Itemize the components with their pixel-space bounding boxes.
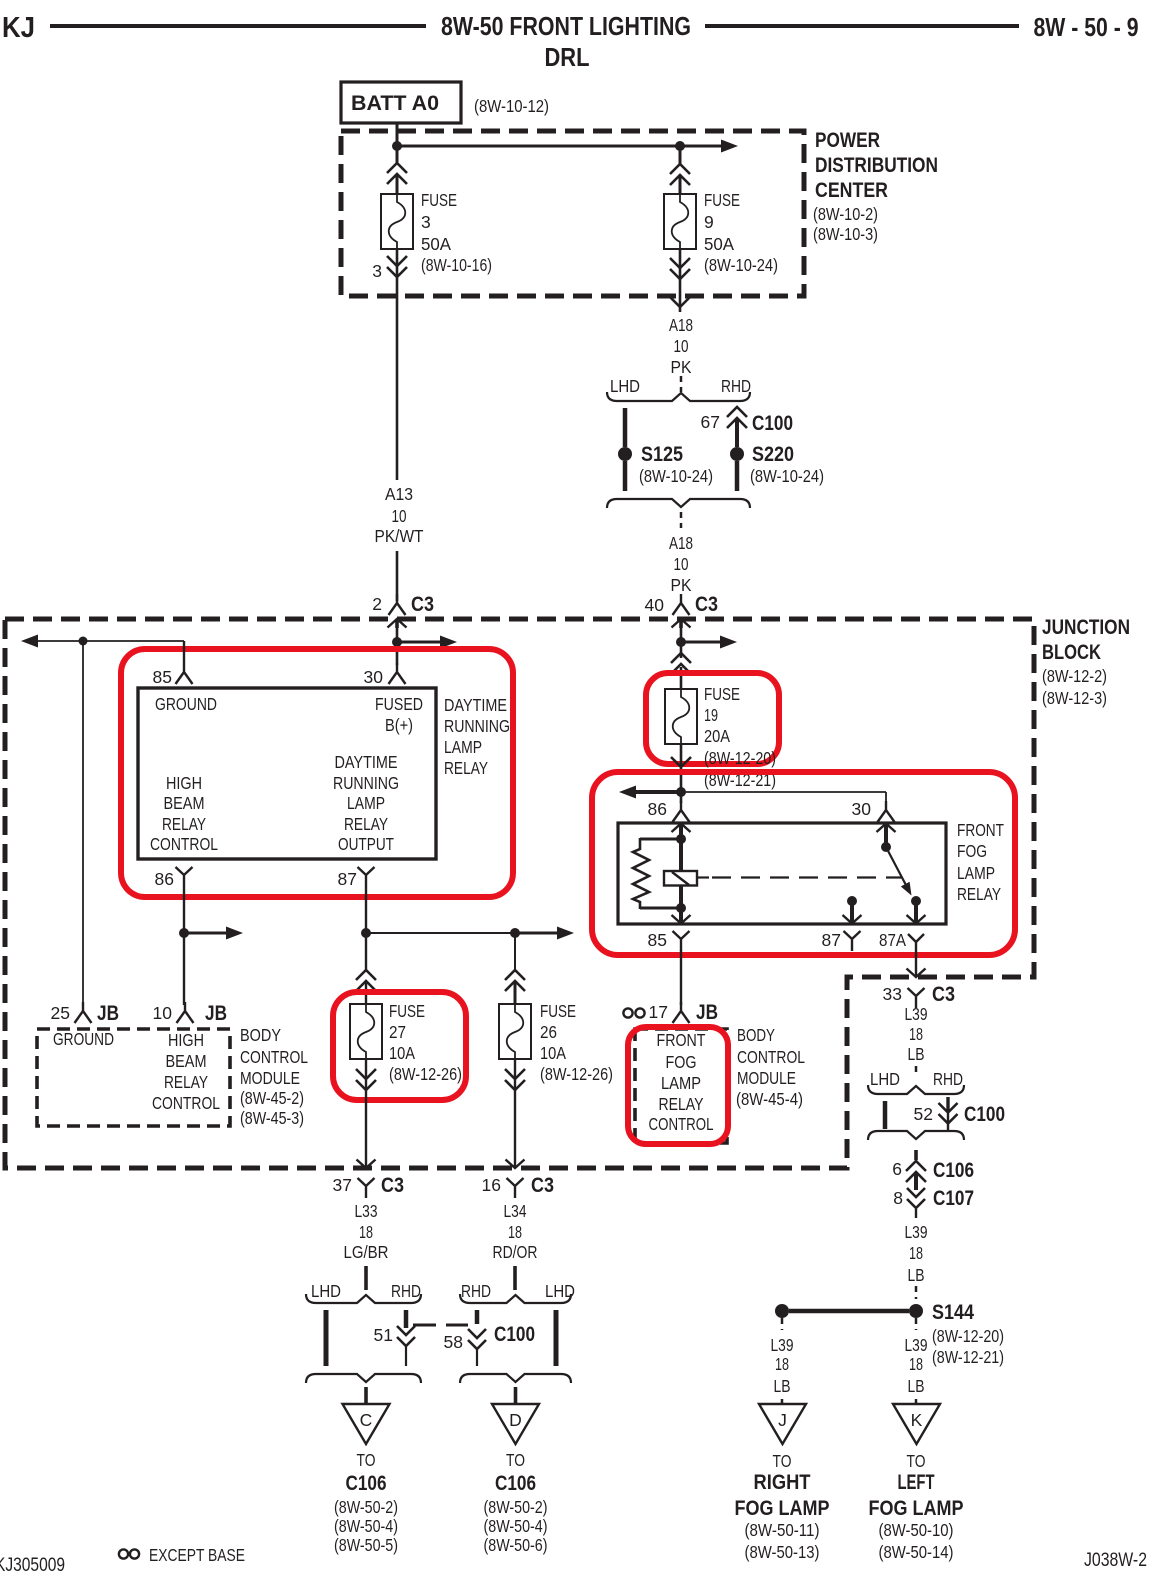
svg-text:10A: 10A — [540, 1043, 566, 1063]
svg-text:(8W-50-2): (8W-50-2) — [484, 1497, 548, 1517]
svg-text:LAMP: LAMP — [347, 793, 385, 813]
svg-text:87: 87 — [822, 930, 841, 950]
svg-text:86: 86 — [648, 799, 667, 819]
svg-text:FUSE: FUSE — [389, 1001, 425, 1021]
wire: to fog relay pin 30 — [681, 791, 886, 793]
svg-text:CONTROL: CONTROL — [240, 1047, 308, 1067]
splice S125 — [618, 447, 632, 461]
fuse F19 symbol — [665, 689, 697, 744]
svg-text:RHD: RHD — [391, 1281, 421, 1301]
svg-text:51: 51 — [374, 1325, 393, 1345]
svg-text:HIGH: HIGH — [166, 773, 202, 793]
svg-text:CENTER: CENTER — [815, 179, 888, 202]
svg-text:BODY: BODY — [240, 1025, 281, 1045]
relay coil — [664, 871, 697, 886]
svg-text:LG/BR: LG/BR — [344, 1242, 389, 1262]
fuse F3 symbol — [381, 194, 413, 249]
svg-text:LEFT: LEFT — [898, 1471, 935, 1494]
svg-text:86: 86 — [155, 869, 174, 889]
svg-text:TO: TO — [773, 1451, 792, 1471]
body control module dashed box (fog) — [635, 1029, 727, 1143]
svg-text:33: 33 — [883, 984, 902, 1004]
svg-text:EXCEPT BASE: EXCEPT BASE — [149, 1545, 245, 1565]
svg-text:C106: C106 — [933, 1159, 974, 1182]
svg-text:(8W-10-2): (8W-10-2) — [813, 204, 878, 224]
battery feed BATT A0 box — [341, 82, 461, 123]
svg-text:18: 18 — [909, 1024, 923, 1044]
highlight: daytime running lamp relay (red) — [121, 649, 513, 897]
node: throw 87A — [911, 896, 921, 906]
svg-text:RELAY: RELAY — [444, 758, 488, 778]
svg-text:FUSE: FUSE — [704, 190, 740, 210]
svg-text:50A: 50A — [421, 234, 451, 254]
node: throw 87 — [847, 896, 857, 906]
connector K triangle — [893, 1404, 940, 1444]
svg-text:18: 18 — [359, 1222, 373, 1242]
svg-text:KJ305009: KJ305009 — [0, 1555, 65, 1576]
dashed actuation link — [712, 876, 902, 878]
svg-text:C107: C107 — [933, 1187, 974, 1210]
svg-text:FRONT: FRONT — [957, 820, 1004, 840]
highlight: fuse 27 (red) — [333, 992, 466, 1100]
node: C3 pin2 junction dot with arrow — [392, 637, 402, 647]
header rule left — [50, 24, 426, 28]
wire into fuse 19 — [671, 653, 691, 674]
wire: fuse 3 to C3 (circuit A13) — [396, 249, 399, 480]
svg-text:OUTPUT: OUTPUT — [338, 834, 394, 854]
connector J triangle — [759, 1404, 806, 1444]
svg-text:LAMP: LAMP — [957, 863, 995, 883]
svg-text:(8W-50-5): (8W-50-5) — [334, 1535, 398, 1555]
svg-text:LHD: LHD — [610, 376, 640, 396]
wire: pin 86 to JB pin 10 — [183, 887, 185, 1005]
node: junction after C3 pin 40 — [676, 637, 686, 647]
svg-text:K: K — [911, 1410, 923, 1430]
svg-text:3: 3 — [421, 212, 431, 232]
svg-text:L39: L39 — [905, 1004, 928, 1024]
svg-text:BEAM: BEAM — [166, 1051, 207, 1071]
header rule right — [705, 24, 1019, 28]
node: junction at fog relay pin 86 — [676, 787, 686, 797]
svg-text:JUNCTION: JUNCTION — [1042, 616, 1130, 639]
svg-text:(8W-50-4): (8W-50-4) — [334, 1516, 398, 1536]
svg-text:A18: A18 — [669, 315, 693, 335]
svg-text:8: 8 — [893, 1188, 903, 1208]
svg-text:10: 10 — [392, 506, 407, 526]
svg-text:LB: LB — [908, 1044, 925, 1064]
wire: fog relay pin 85 to JB pin 17 — [680, 950, 682, 1005]
svg-text:FUSE: FUSE — [421, 190, 457, 210]
node: ground bus junction — [79, 637, 88, 646]
svg-text:(8W-10-24): (8W-10-24) — [750, 466, 824, 486]
svg-text:(8W-50-13): (8W-50-13) — [745, 1542, 820, 1562]
svg-text:D: D — [509, 1410, 522, 1430]
svg-text:A18: A18 — [669, 533, 693, 553]
svg-text:DAYTIME: DAYTIME — [335, 752, 398, 772]
svg-text:LB: LB — [908, 1376, 925, 1396]
svg-text:PK: PK — [671, 357, 692, 377]
svg-text:18: 18 — [909, 1354, 923, 1374]
svg-text:RELAY: RELAY — [162, 814, 206, 834]
svg-text:C3: C3 — [411, 593, 434, 616]
svg-text:RELAY: RELAY — [659, 1094, 704, 1114]
svg-text:RUNNING: RUNNING — [333, 773, 399, 793]
svg-text:26: 26 — [540, 1022, 557, 1042]
svg-text:CONTROL: CONTROL — [152, 1093, 220, 1113]
wire to DRL relay pin 85 — [183, 641, 185, 663]
svg-text:3: 3 — [372, 261, 382, 281]
svg-text:FOG: FOG — [957, 841, 987, 861]
svg-text:RIGHT: RIGHT — [754, 1471, 811, 1494]
svg-text:25: 25 — [51, 1003, 70, 1023]
svg-text:(8W-45-4): (8W-45-4) — [736, 1089, 803, 1109]
svg-text:J: J — [778, 1410, 787, 1430]
svg-text:CONTROL: CONTROL — [150, 834, 218, 854]
svg-text:JB: JB — [97, 1002, 119, 1025]
splice S144 — [775, 1304, 789, 1318]
node: bus junction at fuse 9 — [675, 141, 685, 151]
svg-text:DISTRIBUTION: DISTRIBUTION — [815, 154, 938, 177]
svg-text:8W - 50 - 9: 8W - 50 - 9 — [1034, 12, 1139, 42]
fuse F26 symbol — [499, 1004, 531, 1059]
wire: S144 to left fog lamp — [915, 1318, 918, 1330]
svg-text:CONTROL: CONTROL — [737, 1047, 805, 1067]
svg-text:87A: 87A — [879, 930, 906, 950]
svg-text:LHD: LHD — [311, 1281, 341, 1301]
wire: fuse 19 to fog relay — [680, 744, 683, 803]
svg-text:L39: L39 — [905, 1222, 928, 1242]
svg-text:(8W-12-20): (8W-12-20) — [704, 748, 776, 768]
svg-text:(8W-10-12): (8W-10-12) — [474, 96, 549, 116]
svg-text:FOG LAMP: FOG LAMP — [869, 1497, 964, 1520]
wire: 87A to C3 pin 33 — [915, 950, 917, 977]
node: pin 86 branch — [179, 928, 189, 938]
svg-text:37: 37 — [333, 1175, 352, 1195]
svg-text:(8W-12-20): (8W-12-20) — [932, 1326, 1004, 1346]
svg-text:8W-50 FRONT LIGHTING: 8W-50 FRONT LIGHTING — [441, 11, 691, 41]
wire: fuse 9 to S-splices (circuit A18) — [679, 249, 682, 312]
throw 87A lead — [914, 901, 918, 924]
node: pin 87 branch — [361, 928, 371, 938]
svg-text:(8W-12-26): (8W-12-26) — [389, 1064, 462, 1084]
svg-text:J038W-2: J038W-2 — [1084, 1549, 1147, 1571]
svg-text:TO: TO — [357, 1450, 376, 1470]
svg-text:GROUND: GROUND — [155, 694, 217, 714]
svg-text:(8W-50-14): (8W-50-14) — [879, 1542, 954, 1562]
svg-text:87: 87 — [338, 869, 357, 889]
C3 border crossing into junction block — [388, 619, 407, 628]
power distribution center dashed box — [341, 131, 804, 296]
svg-text:MODULE: MODULE — [240, 1068, 300, 1088]
svg-text:KJ: KJ — [2, 12, 35, 44]
connector C triangle — [364, 1387, 368, 1403]
wire: fuse 26 to C3 pin 16 — [514, 1059, 516, 1168]
svg-text:LHD: LHD — [870, 1069, 900, 1089]
svg-text:27: 27 — [389, 1022, 406, 1042]
svg-text:RHD: RHD — [461, 1281, 491, 1301]
svg-text:TO: TO — [506, 1450, 525, 1470]
svg-text:10A: 10A — [389, 1043, 415, 1063]
svg-text:RHD: RHD — [933, 1069, 963, 1089]
svg-text:JB: JB — [205, 1002, 227, 1025]
svg-text:(8W-45-3): (8W-45-3) — [240, 1108, 304, 1128]
svg-text:10: 10 — [674, 554, 689, 574]
svg-text:18: 18 — [508, 1222, 522, 1242]
svg-text:LAMP: LAMP — [444, 737, 482, 757]
svg-text:17: 17 — [649, 1002, 668, 1022]
node: branch to fuse 26 — [510, 928, 520, 938]
wire: pin 87 to fuse 27 — [365, 887, 367, 972]
svg-text:TO: TO — [907, 1451, 926, 1471]
fog relay coil feed arrow — [672, 824, 691, 833]
svg-text:(8W-12-3): (8W-12-3) — [1042, 688, 1107, 708]
svg-text:RD/OR: RD/OR — [493, 1242, 538, 1262]
wire: relay feed with left arrow — [619, 786, 636, 799]
junction block dashed outline — [5, 619, 1034, 1168]
svg-text:LB: LB — [908, 1265, 925, 1285]
svg-text:10: 10 — [674, 336, 689, 356]
svg-text:DAYTIME: DAYTIME — [444, 695, 507, 715]
svg-text:20A: 20A — [704, 726, 730, 746]
svg-text:C3: C3 — [695, 593, 718, 616]
node: coil bottom — [676, 903, 686, 913]
svg-text:9: 9 — [704, 212, 714, 232]
svg-text:10: 10 — [153, 1003, 173, 1023]
svg-text:(8W-12-2): (8W-12-2) — [1042, 666, 1107, 686]
node: bus junction at fuse 3 — [392, 141, 402, 151]
svg-text:LB: LB — [774, 1376, 791, 1396]
switch common from pin 30 — [877, 824, 896, 833]
svg-text:S220: S220 — [752, 443, 794, 466]
svg-text:85: 85 — [153, 667, 172, 687]
svg-text:C3: C3 — [932, 983, 955, 1006]
svg-text:(8W-50-10): (8W-50-10) — [879, 1520, 954, 1540]
svg-text:RUNNING: RUNNING — [444, 716, 510, 736]
except-base marker — [623, 1008, 632, 1017]
svg-text:BODY: BODY — [737, 1025, 775, 1045]
splice S220 — [730, 447, 744, 461]
connector D triangle — [514, 1387, 518, 1403]
svg-text:C106: C106 — [346, 1472, 387, 1495]
svg-text:(8W-12-26): (8W-12-26) — [540, 1064, 613, 1084]
svg-text:PK: PK — [671, 575, 692, 595]
svg-text:C100: C100 — [964, 1103, 1005, 1126]
highlight: front fog lamp relay control (red) — [628, 1027, 728, 1144]
wire into fuse 3 — [387, 163, 407, 184]
C3 pin 40 border crossing — [672, 619, 691, 628]
wire: fuse 27 to C3 pin 37 — [365, 1059, 367, 1168]
svg-text:B(+): B(+) — [385, 715, 413, 735]
svg-text:(8W-50-11): (8W-50-11) — [745, 1520, 820, 1540]
highlight: front fog lamp relay (red) — [592, 772, 1015, 955]
wire into fuse 26 — [514, 933, 516, 972]
link between pin 51 and 58 — [413, 1324, 436, 1327]
wire: bus to fuse 9 branch with arrow — [397, 145, 722, 148]
svg-text:JB: JB — [696, 1001, 718, 1024]
svg-text:40: 40 — [645, 595, 665, 615]
body control module dashed box — [37, 1029, 230, 1126]
resistor (coil suppression) — [640, 838, 681, 841]
svg-text:RELAY: RELAY — [957, 884, 1001, 904]
wire: ground bus down to JB pin 25 — [82, 641, 84, 1005]
svg-text:DRL: DRL — [545, 42, 590, 72]
svg-text:30: 30 — [852, 799, 872, 819]
svg-text:C100: C100 — [494, 1323, 535, 1346]
svg-text:BATT A0: BATT A0 — [351, 91, 439, 115]
svg-text:C: C — [360, 1410, 373, 1430]
svg-text:18: 18 — [775, 1354, 789, 1374]
svg-text:52: 52 — [914, 1104, 933, 1124]
svg-text:L39: L39 — [905, 1335, 928, 1355]
svg-text:BEAM: BEAM — [164, 793, 205, 813]
connector C100 pin 52 — [946, 1097, 949, 1112]
relay U2 front fog lamp relay box — [618, 823, 946, 924]
wire: BATT A0 down to bus — [396, 123, 399, 163]
svg-text:18: 18 — [909, 1243, 923, 1263]
svg-text:BLOCK: BLOCK — [1042, 641, 1101, 664]
svg-text:(8W-10-24): (8W-10-24) — [704, 255, 778, 275]
svg-text:67: 67 — [701, 412, 720, 432]
svg-text:FUSED: FUSED — [375, 694, 423, 714]
svg-text:S125: S125 — [641, 443, 683, 466]
svg-text:S144: S144 — [932, 1301, 974, 1324]
wire into fuse 27 — [356, 970, 376, 991]
throw 87 lead — [850, 901, 854, 924]
svg-text:HIGH: HIGH — [168, 1030, 204, 1050]
legend: except base — [119, 1549, 128, 1558]
svg-text:2: 2 — [372, 594, 382, 614]
svg-text:(8W-10-3): (8W-10-3) — [813, 224, 878, 244]
svg-text:RHD: RHD — [721, 376, 751, 396]
svg-text:19: 19 — [704, 705, 718, 725]
svg-text:(8W-50-4): (8W-50-4) — [484, 1516, 548, 1536]
svg-text:GROUND: GROUND — [53, 1029, 114, 1049]
svg-text:FRONT: FRONT — [657, 1030, 706, 1050]
svg-text:(8W-10-24): (8W-10-24) — [639, 466, 713, 486]
svg-text:(8W-12-21): (8W-12-21) — [932, 1347, 1004, 1367]
svg-text:CONTROL: CONTROL — [649, 1114, 714, 1134]
svg-text:C3: C3 — [531, 1174, 554, 1197]
svg-text:LAMP: LAMP — [661, 1073, 701, 1093]
svg-text:C106: C106 — [495, 1472, 536, 1495]
svg-text:FOG: FOG — [666, 1052, 697, 1072]
svg-text:RELAY: RELAY — [344, 814, 388, 834]
svg-text:POWER: POWER — [815, 129, 880, 152]
svg-text:6: 6 — [892, 1159, 902, 1179]
svg-text:16: 16 — [482, 1175, 501, 1195]
svg-text:C100: C100 — [752, 412, 793, 435]
svg-text:FOG LAMP: FOG LAMP — [735, 1497, 830, 1520]
switch blade — [886, 847, 908, 888]
svg-text:MODULE: MODULE — [737, 1068, 796, 1088]
svg-text:(8W-50-2): (8W-50-2) — [334, 1497, 398, 1517]
svg-text:FUSE: FUSE — [704, 684, 740, 704]
svg-text:L34: L34 — [504, 1201, 527, 1221]
svg-text:C3: C3 — [381, 1174, 404, 1197]
svg-text:(8W-45-2): (8W-45-2) — [240, 1088, 304, 1108]
svg-text:L39: L39 — [771, 1335, 794, 1355]
fuse F27 symbol — [350, 1004, 382, 1059]
svg-text:A13: A13 — [385, 484, 413, 504]
svg-text:30: 30 — [364, 667, 384, 687]
wire: ground feed with left arrow — [21, 635, 38, 648]
highlight: fuse 19 (red) — [646, 673, 779, 764]
fuse F9 symbol — [664, 194, 696, 249]
wire into fuse 9 — [679, 146, 682, 164]
wire: S144 to right fog lamp — [781, 1318, 784, 1330]
svg-text:(8W-50-6): (8W-50-6) — [484, 1535, 548, 1555]
svg-text:L33: L33 — [355, 1201, 378, 1221]
svg-text:85: 85 — [648, 930, 667, 950]
svg-text:(8W-10-16): (8W-10-16) — [421, 255, 492, 275]
svg-text:50A: 50A — [704, 234, 734, 254]
svg-text:RELAY: RELAY — [164, 1072, 208, 1092]
svg-text:PK/WT: PK/WT — [375, 526, 424, 546]
svg-text:58: 58 — [444, 1332, 463, 1352]
svg-text:FUSE: FUSE — [540, 1001, 576, 1021]
relay U1 daytime running lamp relay box — [138, 688, 436, 859]
